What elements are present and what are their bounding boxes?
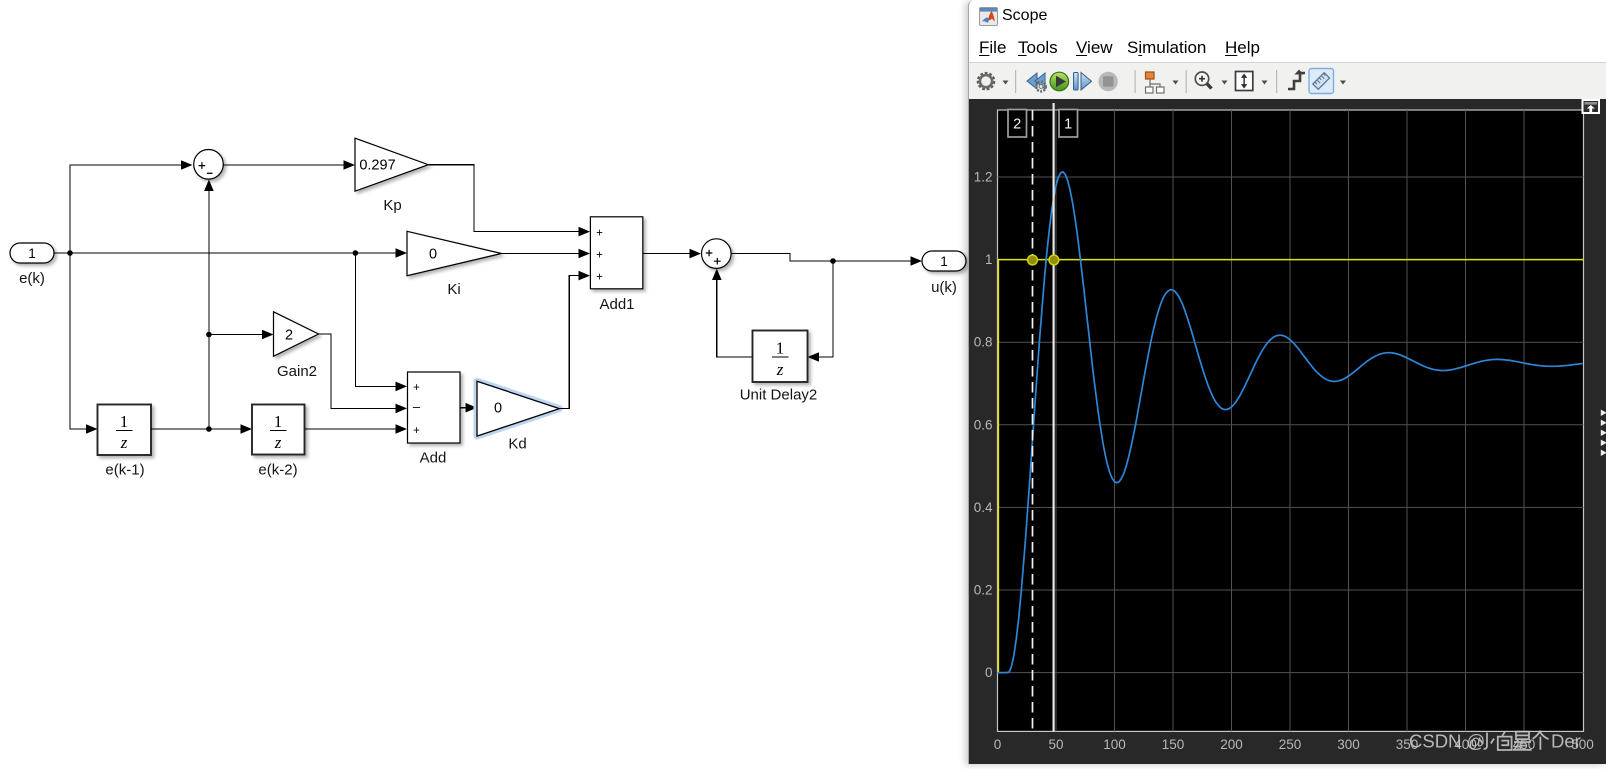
svg-text:1: 1 — [120, 412, 129, 431]
trigger icon — [1288, 73, 1305, 89]
adder block Add — [408, 372, 461, 467]
svg-text:0: 0 — [429, 247, 437, 263]
wire e(k) main line — [70, 252, 355, 254]
svg-text:+: + — [596, 228, 603, 240]
svg-text:z: z — [274, 433, 282, 452]
svg-text:+: + — [413, 425, 420, 437]
svg-text:CSDN @: CSDN @ — [1409, 731, 1485, 752]
wire Add1 to Sum1 circle — [643, 249, 701, 259]
node junction feedback — [830, 258, 836, 264]
inport 1 e(k) — [10, 243, 54, 287]
svg-text:+: + — [413, 382, 420, 394]
wire Gain2 to Add port2 — [319, 334, 408, 413]
wire Sum to Kp — [223, 160, 355, 170]
wire Sum1 to outport with jog — [731, 254, 923, 266]
svg-text:0.6: 0.6 — [974, 417, 993, 432]
svg-text:+: + — [596, 271, 603, 283]
svg-text:150: 150 — [1162, 737, 1185, 752]
svg-text:300: 300 — [1337, 737, 1360, 752]
svg-text:0: 0 — [985, 665, 993, 680]
sum block Sum1 (+ +) — [702, 239, 732, 269]
node junction e(k) main — [67, 250, 73, 256]
unit delay e(k-2) — [252, 405, 305, 479]
wire Ki to Add1 port2 — [501, 249, 590, 259]
svg-text:2: 2 — [1013, 117, 1021, 133]
svg-text:e(k-2): e(k-2) — [258, 462, 297, 479]
svg-text:Kd: Kd — [508, 436, 526, 453]
wire vertical from e(k-1) line up into Sum bottom — [204, 180, 214, 430]
svg-text:Kp: Kp — [383, 197, 401, 214]
node junction Gain2 branch — [206, 332, 212, 338]
svg-text:50: 50 — [1048, 737, 1063, 752]
svg-text:1: 1 — [274, 412, 283, 431]
adder block Add1 — [590, 217, 642, 313]
outport 1 u(k) — [922, 251, 966, 296]
svg-text:0.2: 0.2 — [974, 583, 993, 598]
play icon — [1050, 72, 1069, 91]
svg-text:2: 2 — [285, 328, 293, 344]
gain Gain2 value 2 — [274, 312, 319, 380]
node junction Ki branch — [353, 250, 359, 256]
simulink hierarchy icon — [1146, 72, 1165, 93]
wire e(k-2) to Add port3 — [305, 424, 408, 434]
step forward icon — [1074, 73, 1079, 91]
svg-text:z: z — [120, 433, 128, 452]
wire Add to Kd — [460, 403, 477, 413]
node junction on e(k-1) output — [206, 426, 212, 432]
svg-text:Add: Add — [420, 450, 447, 467]
gain Ki 0 — [407, 231, 501, 298]
svg-text:Ki: Ki — [447, 281, 460, 298]
svg-text:e(k-1): e(k-1) — [105, 462, 144, 479]
unit delay Unit Delay2 (mirrored) — [740, 331, 818, 404]
wire junction down to e(k-1) — [70, 253, 98, 434]
svg-text:+: + — [596, 250, 603, 262]
rewind icon — [1027, 73, 1045, 89]
wire e(k-1) to e(k-2) — [151, 424, 252, 434]
stop icon disabled — [1099, 72, 1118, 91]
wire junction down to Unit Delay2 input — [808, 261, 834, 362]
svg-text:1: 1 — [28, 246, 36, 261]
svg-text:0: 0 — [994, 737, 1002, 752]
gear settings icon — [978, 74, 993, 89]
wire junction down to Add port1 — [355, 253, 407, 391]
wire up-left branch to Sum — [70, 160, 193, 253]
svg-text:0: 0 — [494, 401, 502, 417]
wire junction to Ki — [355, 248, 407, 258]
svg-text:0.297: 0.297 — [359, 158, 395, 174]
wire inport to junction — [54, 252, 70, 254]
svg-text:250: 250 — [1279, 737, 1302, 752]
svg-text:Der: Der — [1551, 731, 1581, 752]
wire Kp to Add1 port1 — [428, 165, 590, 237]
svg-text:100: 100 — [1103, 737, 1126, 752]
gain Kp 0.297 — [355, 138, 428, 214]
svg-text:u(k): u(k) — [931, 279, 957, 296]
svg-text:Unit Delay2: Unit Delay2 — [740, 387, 818, 404]
svg-text:1.2: 1.2 — [974, 170, 993, 185]
wire Unit Delay2 to Sum1 bottom — [712, 269, 753, 358]
zoom icon — [1195, 72, 1211, 89]
svg-text:z: z — [776, 360, 784, 379]
fit-to-view icon — [1236, 72, 1253, 91]
svg-text:1: 1 — [940, 254, 948, 269]
wire junction to Gain2 — [209, 330, 274, 340]
svg-text:e(k): e(k) — [19, 270, 45, 287]
svg-text:Add1: Add1 — [599, 296, 634, 313]
gain Kd 0 selected — [477, 381, 559, 452]
svg-text:1: 1 — [776, 339, 785, 358]
wire Kd to Add1 port3 — [559, 271, 590, 409]
svg-text:1: 1 — [1064, 117, 1072, 133]
unit delay e(k-1) — [98, 405, 152, 479]
sum block Sum (+ -) — [194, 150, 224, 180]
svg-text:1: 1 — [985, 252, 993, 267]
svg-text:200: 200 — [1220, 737, 1243, 752]
svg-text:Gain2: Gain2 — [277, 363, 317, 380]
svg-text:0.4: 0.4 — [974, 500, 993, 515]
svg-text:0.8: 0.8 — [974, 335, 993, 350]
cursor measurements button (active) — [1309, 69, 1334, 94]
svg-text:–: – — [413, 399, 421, 414]
